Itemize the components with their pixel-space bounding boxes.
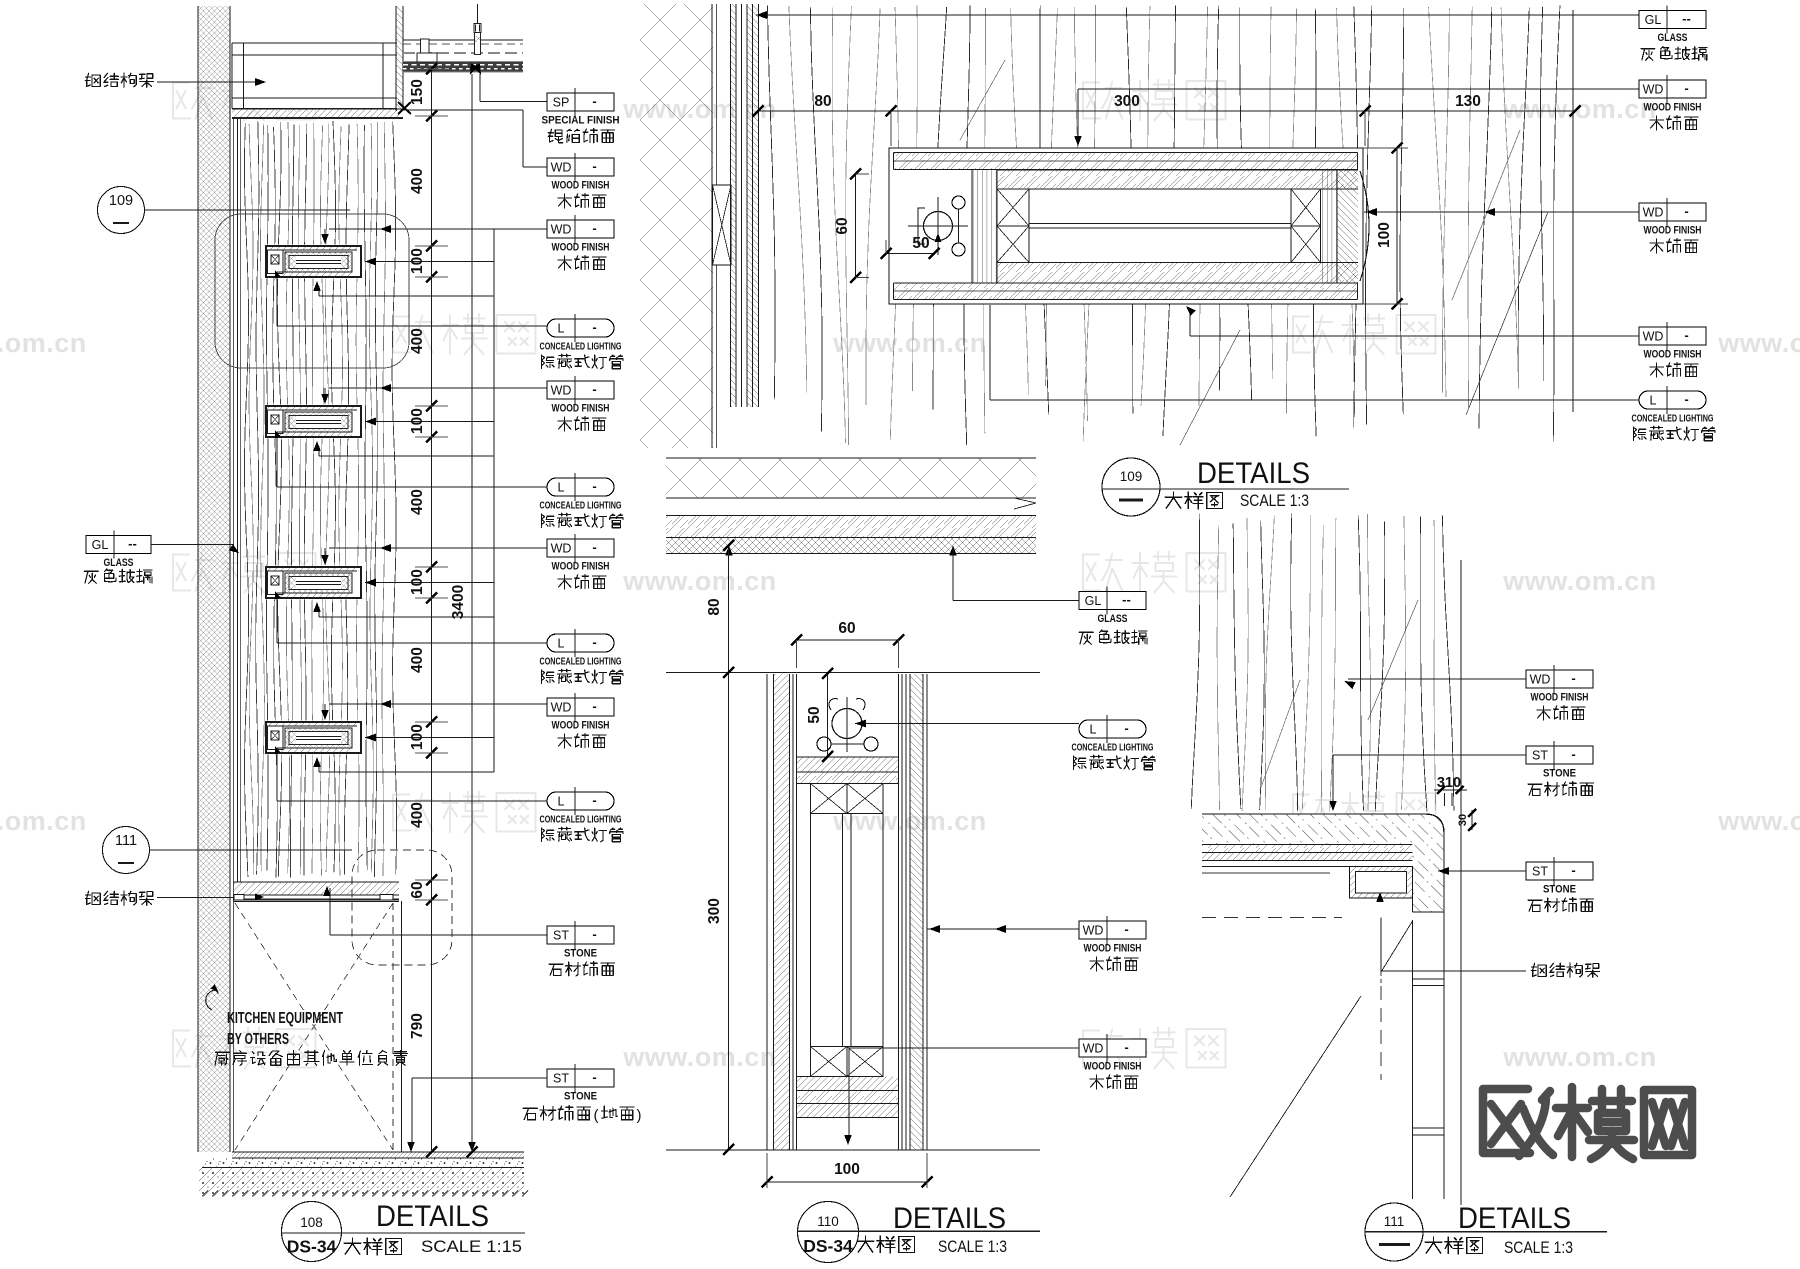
- svg-text:DS-34: DS-34: [287, 1237, 337, 1257]
- svg-text:-: -: [592, 94, 596, 109]
- svg-text:www.om.cn: www.om.cn: [0, 806, 87, 836]
- 109 X blocking right: [1291, 189, 1321, 263]
- svg-text:-: -: [1124, 1040, 1128, 1055]
- detail circle 109 left: [98, 187, 351, 234]
- svg-text:ST: ST: [1532, 749, 1548, 763]
- svg-text:50: 50: [912, 235, 929, 252]
- cabinet bottom hatched band: [233, 882, 399, 902]
- svg-text:400: 400: [409, 489, 426, 515]
- svg-text:-: -: [1684, 204, 1688, 219]
- 109 bottom crosshatch band: [666, 458, 1036, 498]
- 109 wall layered strip: [731, 4, 759, 407]
- 150 dim leader SP: [473, 63, 547, 101]
- svg-text:WOOD FINISH: WOOD FINISH: [1084, 1061, 1142, 1073]
- svg-text:SPECIAL FINISH: SPECIAL FINISH: [542, 115, 620, 127]
- svg-text:WD: WD: [1530, 673, 1551, 687]
- svg-text:110: 110: [817, 1214, 839, 1229]
- svg-text:DETAILS: DETAILS: [376, 1200, 489, 1233]
- svg-text:-: -: [592, 540, 596, 555]
- svg-text:BY OTHERS: BY OTHERS: [227, 1031, 289, 1048]
- tag WD y707: [547, 693, 614, 748]
- leader steel frame lower: [157, 897, 238, 899]
- label 钢结构架 top: [85, 73, 153, 87]
- svg-text:--: --: [128, 536, 137, 551]
- svg-text:www.om.cn: www.om.cn: [622, 566, 777, 596]
- svg-text:DETAILS: DETAILS: [1197, 457, 1310, 490]
- 110 WD b leader: [844, 1048, 1079, 1145]
- svg-text:-: -: [1684, 81, 1688, 96]
- svg-text:400: 400: [409, 647, 426, 673]
- 110 band1: [797, 757, 899, 772]
- 111 dim 30 small: [1457, 809, 1476, 831]
- svg-text:-: -: [1124, 721, 1128, 736]
- 110 dim 50: [806, 668, 833, 762]
- svg-text:WD: WD: [1643, 83, 1664, 97]
- svg-text:111: 111: [1384, 1214, 1405, 1229]
- tag L y328: [540, 314, 624, 369]
- svg-text:DS-34: DS-34: [803, 1236, 853, 1256]
- tag ST y935: [547, 921, 615, 976]
- lamp leader lines L tags: [277, 278, 547, 801]
- leader steel frame label top: [157, 78, 266, 86]
- svg-text:400: 400: [409, 802, 426, 828]
- 109 right end strips: [1321, 170, 1359, 283]
- floor screed stipple band: [202, 1158, 524, 1168]
- 109 vertical blocking strip: [972, 170, 997, 283]
- svg-text:30: 30: [1457, 814, 1469, 826]
- 109 bottom zigzag band: [666, 538, 1036, 554]
- 110 band2: [797, 772, 899, 784]
- 109 grain right boundary: [1572, 10, 1574, 412]
- 109 right arc closure: [1360, 171, 1369, 281]
- svg-text:L: L: [1090, 723, 1097, 737]
- svg-text:WD: WD: [1643, 330, 1664, 344]
- svg-text:WOOD FINISH: WOOD FINISH: [1644, 349, 1702, 361]
- svg-text:CONCEALED LIGHTING: CONCEALED LIGHTING: [540, 501, 622, 512]
- svg-text:80: 80: [814, 93, 831, 110]
- 111 grain diagonal accents: [1260, 600, 1418, 790]
- tag109 GL y19.5: [1639, 6, 1707, 61]
- 109 bottom diag band: [666, 516, 1036, 538]
- svg-text:111: 111: [115, 833, 137, 849]
- concealed light box 4: [265, 721, 363, 755]
- svg-text:GLASS: GLASS: [1098, 613, 1128, 625]
- 110 WD tag a: [1079, 916, 1146, 971]
- big watermark 欧模网 bottom right: [1483, 1087, 1692, 1159]
- svg-text:KITCHEN EQUIPMENT: KITCHEN EQUIPMENT: [227, 1010, 343, 1027]
- svg-text:CONCEALED LIGHTING: CONCEALED LIGHTING: [1072, 743, 1154, 754]
- 109 grain diagonal accents: [960, 60, 1548, 445]
- 111 corner leg bottom: [1413, 898, 1445, 912]
- 109 bottom gap + break: [666, 498, 1036, 516]
- steel beam box top: [232, 43, 397, 109]
- 110 GL tag: [1079, 587, 1147, 645]
- svg-text:--: --: [1122, 592, 1131, 607]
- svg-text:SCALE 1:3: SCALE 1:3: [1504, 1238, 1573, 1257]
- svg-text:STONE: STONE: [564, 948, 597, 960]
- 111 ST lower leader: [1438, 867, 1526, 875]
- svg-text:WOOD FINISH: WOOD FINISH: [1644, 102, 1702, 114]
- svg-text:-: -: [592, 320, 596, 335]
- 109 dim 100 right: [1363, 143, 1408, 310]
- svg-text:108: 108: [300, 1215, 323, 1230]
- svg-text:50: 50: [806, 706, 823, 723]
- dimension chain left detail: [409, 64, 448, 1158]
- svg-text:-: -: [1571, 747, 1575, 762]
- svg-text:-: -: [592, 699, 596, 714]
- svg-text:GL: GL: [1645, 13, 1662, 27]
- svg-text:GLASS: GLASS: [104, 557, 134, 569]
- svg-text:DETAILS: DETAILS: [1458, 1202, 1571, 1235]
- tag109 WD y212: [1639, 198, 1706, 253]
- svg-text:WOOD FINISH: WOOD FINISH: [552, 242, 610, 254]
- svg-text:WOOD FINISH: WOOD FINISH: [1644, 225, 1702, 237]
- svg-text:790: 790: [409, 1013, 426, 1039]
- ST floor leader: [412, 1078, 547, 1148]
- svg-text:SCALE 1:3: SCALE 1:3: [938, 1237, 1007, 1256]
- 110 dim 80-300: [706, 540, 734, 1155]
- svg-text:WOOD FINISH: WOOD FINISH: [1531, 692, 1589, 704]
- svg-text:STONE: STONE: [1543, 768, 1576, 780]
- svg-text:400: 400: [409, 168, 426, 194]
- 110 top reference line: [666, 672, 1040, 674]
- corner tick beam: [398, 102, 523, 167]
- svg-text:-: -: [1571, 671, 1575, 686]
- svg-text:www.om.cn: www.om.cn: [832, 328, 987, 358]
- svg-text:-: -: [592, 927, 596, 942]
- ceiling board band right: [403, 62, 523, 73]
- svg-text:100: 100: [409, 408, 426, 434]
- floor concrete hatch band: [199, 1168, 528, 1197]
- title block 110: [798, 1202, 1041, 1263]
- svg-text:L: L: [558, 481, 565, 495]
- svg-text:WD: WD: [1083, 924, 1104, 938]
- 109 panel core lines: [1029, 189, 1291, 263]
- svg-text:CONCEALED LIGHTING: CONCEALED LIGHTING: [540, 815, 622, 826]
- 111 stone slab: [1202, 814, 1444, 912]
- svg-text:STONE: STONE: [1543, 884, 1576, 896]
- svg-text:CONCEALED LIGHTING: CONCEALED LIGHTING: [1632, 414, 1714, 425]
- 110 L tag: [1072, 715, 1156, 770]
- svg-text:www.om.cn: www.om.cn: [1717, 806, 1800, 836]
- break curl symbol: [206, 984, 218, 1010]
- leader loop box 4: [313, 700, 547, 772]
- 110 left wall: [767, 674, 797, 1150]
- wall face lines: [233, 118, 235, 1152]
- 109 inner top band: [997, 170, 1358, 189]
- svg-text:): ): [637, 1107, 642, 1124]
- tag GL left: [84, 531, 152, 584]
- svg-text:SCALE 1:15: SCALE 1:15: [421, 1237, 522, 1256]
- detail circle 111 left: [103, 827, 353, 874]
- 110 X top pair: [811, 784, 884, 814]
- 111 break diagonal: [1230, 996, 1361, 1197]
- svg-text:L: L: [558, 637, 565, 651]
- 109 wall blocking X: [713, 185, 732, 265]
- svg-text:100: 100: [409, 569, 426, 595]
- 111 wood grain: [1191, 513, 1454, 812]
- svg-text:DETAILS: DETAILS: [893, 1202, 1006, 1235]
- svg-text:CONCEALED LIGHTING: CONCEALED LIGHTING: [540, 342, 622, 353]
- 110 right wall: [899, 674, 928, 1150]
- tag109 WD y336: [1639, 322, 1706, 377]
- 109 lamp: [908, 196, 968, 256]
- svg-text:WOOD FINISH: WOOD FINISH: [1084, 943, 1142, 955]
- 110 X bottom pair: [811, 1047, 884, 1077]
- tag WD y167: [547, 153, 614, 208]
- 109 dim 60: [834, 169, 869, 284]
- concealed light box 3: [265, 566, 363, 600]
- 110 bottom bands: [797, 1077, 899, 1118]
- svg-text:109: 109: [109, 193, 133, 209]
- title block 108: [282, 1200, 526, 1262]
- 109 right tag leaders: [756, 11, 1639, 400]
- svg-text:400: 400: [409, 328, 426, 354]
- tag WD y229: [547, 215, 614, 270]
- callout bubble B kitchen corner: [352, 850, 452, 965]
- glass pane double line: [238, 118, 241, 882]
- 110 cavity bottom: [797, 756, 899, 758]
- kitchen equipment text: [227, 1010, 343, 1048]
- threaded rod hanger: [474, 4, 481, 55]
- svg-text:300: 300: [1114, 93, 1140, 110]
- cabinet clips: [234, 894, 393, 901]
- svg-text:WOOD FINISH: WOOD FINISH: [552, 180, 610, 192]
- 110 lamp: [817, 697, 878, 752]
- svg-text:-: -: [592, 159, 596, 174]
- kitchen chinese text: [215, 1050, 407, 1065]
- 111 ST tag lower: [1526, 857, 1594, 912]
- svg-text:-: -: [1684, 392, 1688, 407]
- tag L y487: [540, 473, 624, 528]
- tag WD y390: [547, 376, 614, 431]
- 109 top wood band: [894, 153, 1358, 170]
- callout bubble A around box1: [215, 214, 409, 368]
- svg-text:www.om.cn: www.om.cn: [1502, 1042, 1657, 1072]
- svg-text:60: 60: [834, 217, 851, 234]
- svg-text:100: 100: [834, 1161, 860, 1178]
- ceiling finish band below beam: [232, 109, 403, 118]
- tag WD y548: [547, 534, 614, 589]
- 111 steel tube: [1350, 867, 1413, 903]
- 110 dim 60: [791, 620, 904, 668]
- svg-text:-: -: [592, 793, 596, 808]
- 111 steel frame leader: [1381, 970, 1526, 972]
- svg-text:CONCEALED LIGHTING: CONCEALED LIGHTING: [540, 657, 622, 668]
- concealed light box 2: [265, 405, 363, 439]
- svg-text:130: 130: [1455, 93, 1481, 110]
- 109 top dimension line: [753, 93, 1581, 146]
- 111 ST tag upper: [1526, 741, 1594, 796]
- 111 steel frame below: [1381, 912, 1444, 1199]
- svg-text:-: -: [1571, 863, 1575, 878]
- svg-text:-: -: [592, 635, 596, 650]
- kitchen dashed X: [235, 901, 402, 1152]
- 109 dim 50: [881, 235, 940, 259]
- tag SP y102: [542, 88, 620, 143]
- 109 inner bottom band: [997, 263, 1358, 284]
- tag109 WD y89: [1639, 75, 1706, 130]
- 109 wood grain field: [767, 5, 1560, 445]
- svg-text:ST: ST: [553, 1072, 569, 1086]
- ST1 leader: [323, 886, 547, 935]
- svg-text:WOOD FINISH: WOOD FINISH: [552, 720, 610, 732]
- floor arrows: [407, 1142, 476, 1152]
- svg-text:WD: WD: [1643, 206, 1664, 220]
- 110 GL leader: [953, 600, 1079, 602]
- svg-text:80: 80: [706, 598, 723, 615]
- svg-text:GL: GL: [1085, 594, 1102, 608]
- GL leader: [151, 544, 239, 553]
- 111 dashed lines left: [1202, 873, 1342, 918]
- svg-text:310: 310: [1437, 775, 1461, 791]
- 111 right reference vertical: [1460, 560, 1462, 1205]
- 111 steel frame label: [1531, 963, 1599, 977]
- wall crosshatch strip left: [198, 6, 230, 1152]
- leader loop box 3: [313, 544, 547, 617]
- tag L y643: [540, 629, 624, 684]
- svg-text:300: 300: [706, 898, 723, 924]
- concealed light box 1: [265, 245, 363, 279]
- svg-text:WD: WD: [551, 161, 572, 175]
- ceiling hanger bracket: [417, 39, 437, 62]
- svg-text:100: 100: [409, 724, 426, 750]
- 110 WD a leader: [927, 925, 1079, 933]
- svg-text:100: 100: [1376, 222, 1393, 248]
- leader bus vertical: [493, 229, 495, 772]
- svg-text:WD: WD: [551, 542, 572, 556]
- svg-text:WD: WD: [551, 701, 572, 715]
- 110 bottom reference line: [666, 1149, 1040, 1151]
- tag109 L y400: [1632, 386, 1716, 441]
- svg-text:WOOD FINISH: WOOD FINISH: [552, 561, 610, 573]
- 111 WD tag: [1526, 665, 1593, 720]
- suspended ceiling channel right: [403, 40, 523, 53]
- 110 WD tag b: [1079, 1034, 1146, 1089]
- svg-text:GLASS: GLASS: [1658, 32, 1688, 44]
- svg-text:L: L: [558, 795, 565, 809]
- wood grain left panel: [245, 121, 397, 877]
- tag ST floor: [523, 1064, 642, 1124]
- 109 X blocking left: [997, 189, 1029, 263]
- svg-text:L: L: [1650, 394, 1657, 408]
- 110 inner panel verticals: [811, 814, 884, 1047]
- title block 109: [1102, 457, 1349, 516]
- svg-text:109: 109: [1120, 469, 1143, 484]
- svg-text:100: 100: [409, 248, 426, 274]
- svg-text:-: -: [592, 221, 596, 236]
- overall 3400 dimension: [450, 63, 478, 1157]
- svg-text:GL: GL: [92, 538, 109, 552]
- svg-text:www.om.cn: www.om.cn: [0, 328, 87, 358]
- 111 dim 310: [1434, 775, 1467, 806]
- steel column hatched strip right of beam: [396, 6, 403, 111]
- svg-text:SP: SP: [553, 96, 570, 110]
- svg-text:WOOD FINISH: WOOD FINISH: [552, 403, 610, 415]
- svg-text:www.om.cn: www.om.cn: [1502, 566, 1657, 596]
- svg-text:-: -: [592, 1070, 596, 1085]
- leader loop box 2: [313, 384, 547, 456]
- svg-text:-: -: [592, 479, 596, 494]
- tag L y801: [540, 787, 624, 842]
- title block 111: [1365, 1202, 1607, 1261]
- 109 assembly outer box: [889, 148, 1363, 304]
- svg-text:ST: ST: [1532, 865, 1548, 879]
- 109 bottom wood band: [894, 283, 1358, 300]
- svg-text:www.om.cn: www.om.cn: [622, 1042, 777, 1072]
- svg-text:-: -: [1124, 922, 1128, 937]
- 109 wall crosshatch region: [640, 4, 717, 448]
- floor finish thin band: [232, 1152, 524, 1158]
- 111 ST upper leader: [1329, 755, 1526, 811]
- 109 band leader arrows: [725, 546, 957, 601]
- svg-text:WD: WD: [1083, 1042, 1104, 1056]
- svg-text:--: --: [1682, 11, 1691, 26]
- svg-text:150: 150: [409, 79, 426, 105]
- 111 WD leader: [1344, 679, 1526, 689]
- svg-text:L: L: [558, 322, 565, 336]
- svg-text:WD: WD: [551, 223, 572, 237]
- 110 dim 100: [762, 1153, 933, 1188]
- label 钢结构架 lower: [85, 891, 153, 905]
- svg-text:60: 60: [409, 881, 426, 898]
- svg-text:STONE: STONE: [564, 1091, 597, 1103]
- svg-text:WD: WD: [551, 384, 572, 398]
- 110 lamp leader: [855, 720, 1079, 728]
- svg-text:3400: 3400: [450, 585, 467, 619]
- watermark grid: [0, 80, 1800, 1072]
- svg-text:www.om.cn: www.om.cn: [1717, 328, 1800, 358]
- svg-text:(: (: [594, 1107, 599, 1124]
- svg-text:SCALE 1:3: SCALE 1:3: [1240, 491, 1309, 510]
- leader loop box 1: [313, 225, 547, 296]
- svg-text:-: -: [1684, 328, 1688, 343]
- svg-text:ST: ST: [553, 929, 569, 943]
- 111 substrate bands: [1202, 845, 1413, 867]
- svg-text:-: -: [592, 382, 596, 397]
- leader WD1: [523, 166, 547, 168]
- svg-text:60: 60: [838, 620, 855, 637]
